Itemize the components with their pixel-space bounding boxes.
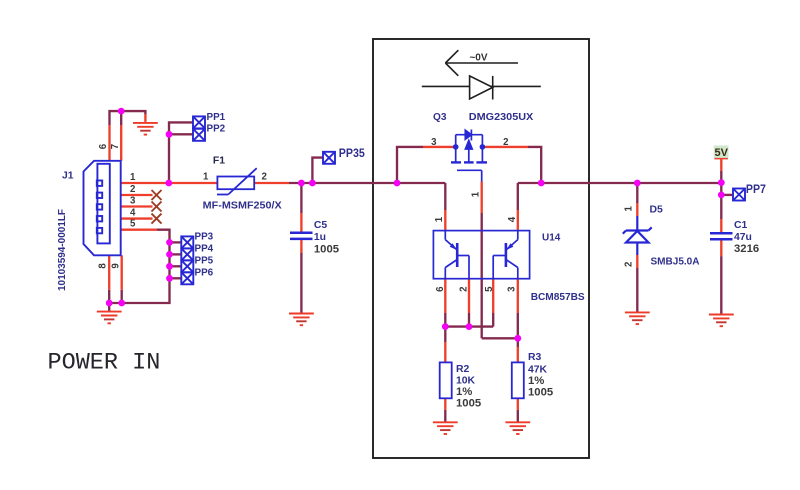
svg-text:5V: 5V [714,147,728,159]
svg-text:1: 1 [623,205,634,211]
svg-text:D5: D5 [650,205,664,216]
svg-text:1: 1 [470,191,481,197]
svg-text:6: 6 [98,143,109,149]
svg-text:1005: 1005 [528,387,553,399]
svg-text:PP1: PP1 [207,112,226,123]
svg-text:PP35: PP35 [339,146,365,160]
svg-text:C5: C5 [314,220,328,231]
svg-text:3216: 3216 [734,243,759,255]
svg-text:PP6: PP6 [195,267,214,278]
svg-text:R2: R2 [456,364,470,375]
svg-text:3: 3 [431,137,437,148]
svg-text:1: 1 [130,172,136,183]
svg-text:9: 9 [111,263,122,269]
svg-text:5: 5 [484,286,495,292]
svg-text:47K: 47K [528,364,548,375]
svg-text:~0V: ~0V [469,52,487,63]
svg-text:DMG2305UX: DMG2305UX [469,112,534,123]
svg-text:POWER IN: POWER IN [48,350,161,377]
svg-text:2: 2 [459,287,470,292]
svg-text:2: 2 [623,262,634,267]
svg-text:10103594-0001LF: 10103594-0001LF [56,208,68,291]
svg-text:3: 3 [506,286,517,292]
svg-text:10K: 10K [456,376,476,387]
svg-text:1: 1 [434,216,445,222]
svg-text:2: 2 [503,137,508,148]
svg-text:PP3: PP3 [195,231,214,242]
svg-text:2: 2 [262,172,267,183]
svg-text:8: 8 [98,263,109,269]
svg-text:BCM857BS: BCM857BS [531,292,585,303]
svg-text:3: 3 [130,195,136,206]
svg-text:PP2: PP2 [207,124,226,135]
svg-text:1: 1 [203,172,209,183]
svg-text:R3: R3 [528,352,542,363]
svg-text:7: 7 [110,144,121,149]
svg-text:SMBJ5.0A: SMBJ5.0A [651,257,700,268]
svg-text:5: 5 [130,219,136,230]
svg-text:F1: F1 [213,156,225,167]
svg-text:MF-MSMF250/X: MF-MSMF250/X [203,201,282,212]
svg-text:47u: 47u [734,232,752,243]
svg-text:1u: 1u [314,232,326,243]
svg-text:PP7: PP7 [746,182,766,196]
svg-text:6: 6 [435,286,446,292]
svg-text:PP5: PP5 [195,255,214,266]
svg-text:1%: 1% [456,386,472,398]
svg-text:4: 4 [130,207,136,218]
svg-text:Q3: Q3 [433,112,447,123]
svg-text:U14: U14 [542,232,561,243]
svg-text:1%: 1% [528,375,544,387]
svg-text:J1: J1 [62,171,74,182]
svg-text:C1: C1 [734,220,748,231]
svg-text:4: 4 [507,216,518,222]
svg-text:1005: 1005 [456,398,481,410]
svg-text:2: 2 [130,184,135,195]
svg-text:1005: 1005 [314,243,339,255]
svg-text:PP4: PP4 [195,243,214,254]
